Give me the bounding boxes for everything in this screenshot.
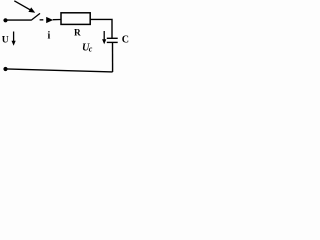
wire: bottom horizontal bbox=[6, 69, 113, 72]
capacitor C top plate bbox=[107, 37, 118, 39]
capacitor C bottom plate bbox=[107, 41, 118, 43]
node: left bottom terminal dot bbox=[3, 67, 7, 71]
voltage U reference arrow (down) bbox=[12, 32, 16, 46]
switch closing pointer arrow bbox=[14, 1, 35, 13]
svg-text:i: i bbox=[48, 30, 51, 41]
wire: current arrow to resistor left terminal bbox=[53, 19, 61, 21]
background bbox=[0, 0, 130, 79]
wire: top-left horizontal to switch pivot bbox=[6, 19, 32, 21]
voltage Uc reference arrow (down) bbox=[102, 31, 106, 44]
resistor R (box) bbox=[61, 13, 90, 25]
node: left top terminal dot bbox=[3, 18, 7, 22]
svg-text:R: R bbox=[74, 29, 81, 39]
switch S blade (open) bbox=[31, 13, 40, 20]
wire: resistor to top-right corner bbox=[91, 19, 112, 38]
wire: switch right stub to resistor bbox=[40, 19, 44, 21]
current arrow i (direction arrowhead) bbox=[46, 17, 53, 23]
svg-text:C: C bbox=[122, 35, 129, 46]
svg-text:U: U bbox=[2, 35, 9, 46]
svg-text:c: c bbox=[89, 45, 93, 54]
wire: capacitor down to bottom wire bbox=[112, 42, 114, 72]
